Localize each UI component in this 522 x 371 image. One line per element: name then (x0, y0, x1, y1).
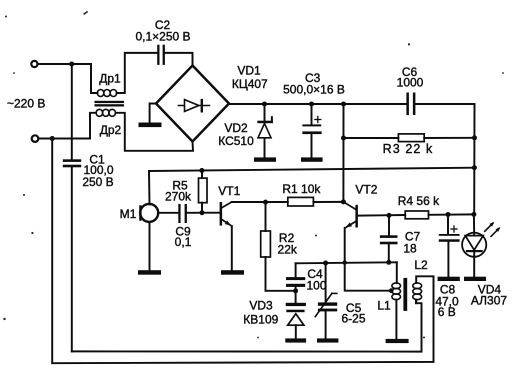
svg-text:L2: L2 (414, 258, 428, 272)
svg-text:100: 100 (306, 278, 326, 292)
svg-text:КС510: КС510 (218, 134, 254, 148)
inductor L1 (377, 262, 400, 339)
resistor R5 (165, 171, 207, 213)
node R5 bottom junction (200, 210, 205, 215)
svg-text:500,0×16 В: 500,0×16 В (283, 83, 345, 97)
node C3 junction (309, 102, 314, 107)
capacitor C4 (286, 263, 327, 303)
ground C8 (438, 277, 460, 281)
wire emitter node line (296, 262, 397, 263)
node VT2 collector junction (341, 199, 346, 204)
inductor L2 (413, 258, 428, 303)
varicap VD3 (243, 299, 306, 339)
svg-text:6 В: 6 В (438, 305, 456, 319)
node VD2 junction (262, 102, 267, 107)
wire Dr1 right up to C2 (117, 53, 158, 93)
wire up to Dr1 left (91, 64, 97, 93)
node C7 bottom junction (386, 260, 391, 265)
terminal bottom input (32, 135, 39, 142)
resistor R4 (398, 194, 474, 219)
svg-text:1000: 1000 (397, 76, 424, 90)
svg-text:R3 22 k: R3 22 k (383, 142, 434, 156)
svg-text:6-25: 6-25 (341, 312, 365, 326)
capacitor C8 electrolytic (435, 215, 459, 319)
inductor Dr2 (96, 109, 121, 137)
capacitor C2 (135, 18, 190, 65)
wire C9 to VT1 base (187, 212, 220, 214)
ground VD4 (464, 277, 486, 281)
ground L1 (386, 339, 409, 343)
microphone M1 (120, 171, 159, 222)
wire inner bottom rail (72, 300, 422, 352)
node VD3 top junction (293, 288, 298, 293)
inductor Dr1 (97, 72, 121, 97)
terminal top input (31, 61, 37, 67)
zener diode VD2 (218, 104, 273, 157)
node junction top-left (69, 62, 74, 67)
svg-text:VD3: VD3 (249, 299, 273, 313)
svg-text:Др2: Др2 (100, 123, 122, 137)
capacitor C3 electrolytic (283, 71, 345, 157)
wire M1 to C9 (159, 212, 179, 214)
transformer core bars (95, 101, 125, 103)
svg-text:Др1: Др1 (99, 72, 121, 86)
svg-text:КВ109: КВ109 (243, 312, 278, 326)
node emitter cross junction (343, 260, 347, 264)
resistor R1 (282, 182, 343, 206)
svg-text:0,1: 0,1 (175, 235, 192, 249)
wire dc rail top right of C6 (415, 103, 474, 105)
wire VT1 collector to R1 (232, 201, 288, 203)
LED VD4 (462, 214, 507, 307)
svg-text:М1: М1 (120, 207, 137, 221)
wire bottom mains to Dr2 (90, 113, 96, 139)
ground C5 (317, 338, 338, 342)
svg-text:КЦ407: КЦ407 (232, 77, 268, 91)
transistor VT2 (344, 182, 377, 228)
node rail right junction (472, 165, 477, 170)
node R2 top junction (263, 200, 268, 205)
svg-text:VT1: VT1 (218, 184, 240, 198)
wire Dr2 right to bridge bottom (116, 113, 194, 151)
ground at bridge left (139, 104, 162, 128)
svg-text:250 В: 250 В (82, 175, 113, 189)
node junction bottom-left (50, 136, 55, 141)
ground M1 (138, 270, 161, 275)
transformer core L1 L2 (403, 278, 407, 311)
wire outer loop (52, 139, 433, 364)
wire M1 emitter down (149, 222, 151, 270)
rectifier bridge VD1 (156, 64, 268, 142)
wire top mains (38, 63, 91, 65)
node C7 top junction (387, 213, 392, 218)
capacitor C7 (380, 215, 421, 262)
svg-text:270k: 270k (165, 190, 192, 204)
svg-text:18: 18 (403, 241, 417, 255)
ground VD3 (285, 338, 306, 342)
ground VD2 (254, 157, 276, 161)
wire vertical x343 to VT2 collector (342, 104, 344, 202)
node VD4 junction (471, 212, 476, 217)
wire right vertical (473, 104, 475, 214)
wire C2 to bridge top (165, 53, 193, 66)
wire bottom mains (39, 138, 90, 140)
wire VT1 emitter down (231, 226, 233, 270)
svg-text:VD1: VD1 (237, 64, 261, 78)
svg-text:22k: 22k (278, 242, 298, 256)
trimmer capacitor C5 (315, 263, 366, 338)
node C8 junction (446, 212, 451, 217)
ground VT1 (221, 270, 244, 275)
wire dc rail top (229, 103, 406, 105)
wire VT2 emitter down (344, 228, 346, 263)
svg-text:VD2: VD2 (224, 121, 248, 135)
node rail junction x343 (341, 102, 346, 107)
node R5 top junction (199, 168, 204, 173)
svg-text:R4 56 k: R4 56 k (398, 194, 440, 208)
node C5 top junction (323, 261, 328, 266)
wire L1 tap (345, 263, 392, 291)
svg-text:АЛ307: АЛ307 (471, 294, 507, 308)
svg-text:VT2: VT2 (355, 182, 377, 196)
node L1 tap junction (389, 288, 394, 293)
transistor VT1 (218, 184, 240, 226)
resistor R2 (261, 202, 298, 291)
capacitor C6 (397, 65, 424, 115)
ground C3 (301, 157, 323, 161)
capacitor C1 (63, 64, 114, 351)
svg-text:L1: L1 (377, 298, 391, 312)
capacitor C9 (175, 204, 192, 249)
svg-text:R1 10k: R1 10k (282, 182, 321, 196)
wire mid rail (149, 168, 475, 171)
svg-text:~220 В: ~220 В (7, 97, 45, 111)
wire VT2 base to R4 (358, 214, 405, 217)
resistor R3 (344, 134, 475, 156)
svg-text:0,1×250 В: 0,1×250 В (135, 29, 190, 43)
node R3 right junction (472, 135, 477, 140)
node R3 left junction (341, 136, 346, 141)
